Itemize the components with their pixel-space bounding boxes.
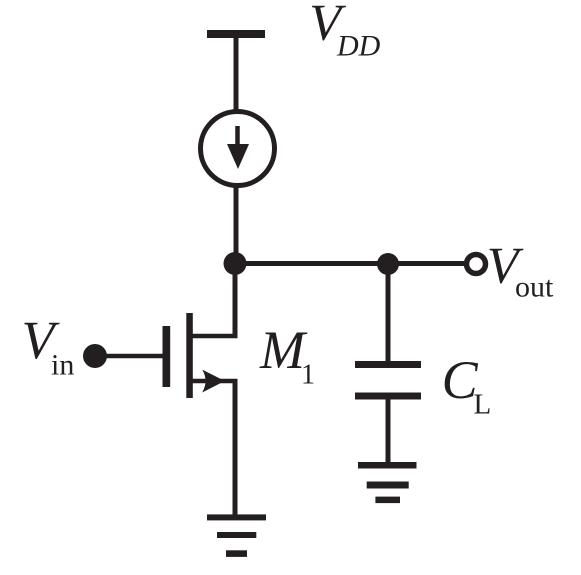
ground (CL) bar 3	[375, 497, 400, 504]
wire source to ground	[233, 381, 238, 517]
svg-text:out: out	[515, 271, 554, 304]
input terminal dot Vin	[83, 344, 107, 368]
label Vout	[487, 238, 554, 304]
capacitor CL top plate	[355, 361, 421, 368]
svg-text:L: L	[474, 389, 492, 421]
svg-text:1: 1	[301, 360, 315, 391]
wire Vin to gate	[95, 354, 163, 359]
label Vin	[22, 310, 75, 381]
ground (M1 source) bar 2	[217, 532, 256, 538]
transistor M1 drain lead	[192, 334, 238, 339]
wire drain to output node	[233, 264, 238, 339]
current source I1 circle	[201, 112, 275, 186]
wire output horizontal	[235, 261, 464, 266]
wire current source to output node	[234, 185, 239, 266]
capacitor CL bottom plate	[355, 393, 421, 400]
wire CL bottom plate to ground	[386, 399, 391, 465]
ground (CL) bar 2	[367, 482, 409, 489]
ground (M1 source) bar 1	[207, 514, 266, 520]
svg-text:in: in	[51, 348, 74, 381]
svg-text:DD: DD	[336, 30, 381, 63]
transistor M1 source lead	[192, 379, 238, 384]
wire junction to CL top plate	[386, 264, 391, 362]
transistor M1 source arrowhead	[202, 370, 225, 393]
ground (M1 source) bar 3	[226, 550, 247, 557]
label CL	[442, 350, 492, 421]
terminal Vout open circle	[467, 255, 486, 274]
node: junction dot at CL	[377, 253, 399, 275]
ground (CL) bar 1	[358, 462, 417, 469]
current source arrowhead	[227, 144, 249, 169]
label M1	[259, 320, 315, 391]
current source arrow shaft	[235, 126, 240, 152]
transistor M1 gate bar	[163, 326, 171, 387]
wire VDD bar to current source	[234, 38, 239, 112]
power rail VDD bar	[207, 30, 265, 38]
transistor M1 channel bar	[186, 313, 193, 398]
node: output junction dot	[224, 252, 247, 275]
label VDD	[309, 0, 380, 63]
